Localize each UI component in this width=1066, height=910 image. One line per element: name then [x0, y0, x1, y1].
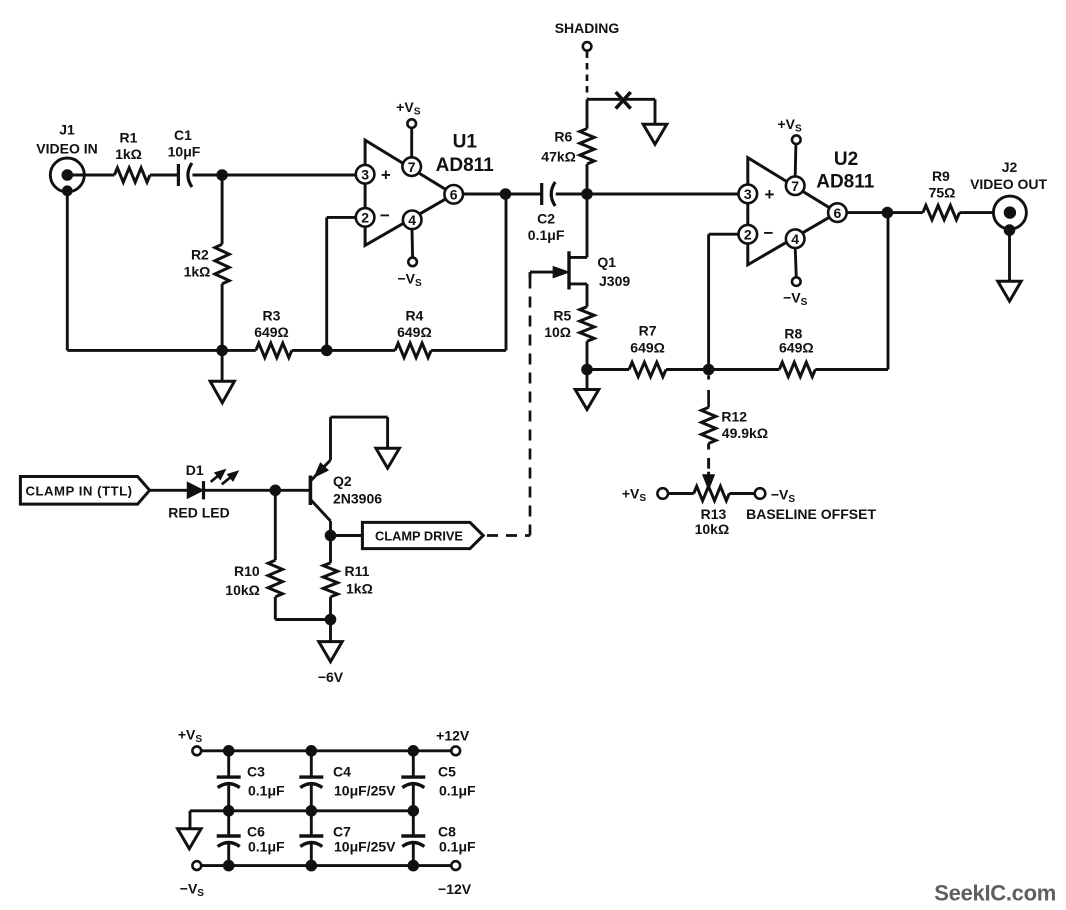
label R1 1k: [115, 130, 142, 163]
node R5/R7: [581, 364, 593, 376]
U2 pin 2: [739, 225, 758, 244]
label C7 10uF: [333, 823, 396, 854]
svg-text:1kΩ: 1kΩ: [115, 146, 142, 162]
U2 plus sign: [765, 185, 775, 204]
label U1 -Vs: [397, 270, 422, 289]
svg-text:D1: D1: [186, 462, 204, 478]
label C6 0.1uF: [247, 823, 285, 854]
ground at shading: [643, 124, 667, 144]
label R9 75: [929, 168, 956, 201]
flag CLAMP IN (TTL): [20, 477, 149, 505]
U2 -Vs terminal: [792, 248, 801, 286]
svg-text:C4: C4: [333, 764, 351, 780]
node top C5: [408, 745, 420, 757]
resistor R2: [215, 175, 229, 350]
svg-text:RED LED: RED LED: [168, 505, 229, 521]
svg-text:2: 2: [744, 226, 752, 242]
capacitor C8: [401, 811, 425, 866]
label R2 1k: [184, 247, 211, 280]
label +Vs at R13: [622, 486, 647, 505]
U1 plus sign: [381, 165, 391, 184]
svg-text:Q2: Q2: [333, 473, 352, 489]
label R4 649: [397, 308, 432, 341]
node U1 output: [500, 188, 512, 200]
label U1 +Vs: [396, 99, 421, 118]
node at C1/R2: [216, 169, 228, 181]
U2 pin 6: [828, 203, 847, 222]
capacitor C6: [217, 811, 241, 866]
transistor Q2 2N3906: [310, 460, 330, 521]
wire R4 up to output node: [431, 194, 506, 350]
label U2: [816, 149, 875, 193]
svg-text:49.9kΩ: 49.9kΩ: [722, 425, 768, 441]
flag CLAMP DRIVE: [362, 522, 483, 548]
U1 pin 6: [444, 185, 463, 204]
svg-text:C8: C8: [438, 823, 456, 839]
label C4 10uF: [333, 764, 396, 799]
label R5 10ohm: [544, 307, 571, 340]
svg-text:U1: U1: [453, 132, 478, 153]
potentiometer R13: [657, 486, 765, 500]
bottom rail wire: [201, 864, 451, 867]
svg-text:CLAMP DRIVE: CLAMP DRIVE: [375, 528, 463, 543]
resistor R1: [114, 168, 150, 182]
node bot C7: [306, 860, 318, 872]
wire D1 to Q2 base: [204, 489, 311, 492]
label C3 0.1uF: [247, 764, 285, 799]
svg-text:2: 2: [361, 210, 369, 226]
svg-text:R9: R9: [932, 168, 950, 184]
wire Q2 collector down: [329, 521, 332, 536]
U2 pin 4: [786, 229, 805, 248]
svg-text:0.1μF: 0.1μF: [528, 227, 565, 243]
svg-text:R12: R12: [721, 408, 747, 424]
resistor R4: [395, 343, 431, 357]
label BASELINE OFFSET: [746, 506, 876, 522]
capacitor C3: [217, 751, 241, 811]
svg-text:J1: J1: [59, 122, 75, 138]
svg-text:649Ω: 649Ω: [254, 324, 289, 340]
-12V rail terminal: [451, 861, 460, 870]
node mid (R6/Q1): [581, 188, 593, 200]
svg-text:10μF/25V: 10μF/25V: [334, 838, 396, 854]
svg-text:J309: J309: [599, 273, 630, 289]
label C5 0.1uF: [438, 764, 476, 799]
svg-text:0.1μF: 0.1μF: [439, 838, 476, 854]
svg-text:75Ω: 75Ω: [929, 185, 956, 201]
wire R7 to node: [666, 368, 709, 371]
resistor R12 (dashed leads): [701, 375, 715, 468]
U1 +Vs terminal: [407, 119, 416, 157]
node mid C4: [306, 805, 318, 817]
transistor Q1 J309 (JFET): [530, 251, 587, 289]
wire R9 to J2: [960, 211, 1010, 214]
svg-text:4: 4: [408, 212, 416, 228]
ground at J2: [998, 281, 1021, 301]
U1 pin 4: [403, 211, 422, 230]
svg-text:4: 4: [791, 231, 799, 247]
label -Vs rail: [180, 880, 205, 899]
wire J2 to ground: [1008, 230, 1011, 281]
capacitor C2: [542, 182, 556, 206]
wire node to CLAMP DRIVE flag: [331, 534, 363, 537]
svg-text:R4: R4: [405, 308, 423, 324]
svg-text:7: 7: [408, 159, 416, 175]
svg-text:649Ω: 649Ω: [779, 340, 814, 356]
node mid C3: [223, 805, 235, 817]
node R7/R8/R12: [703, 364, 715, 376]
label R3 649: [254, 308, 289, 341]
capacitor C1: [178, 163, 192, 187]
capacitor C4: [299, 751, 323, 811]
label RED LED: [168, 505, 229, 521]
node R3/R4: [321, 345, 333, 357]
node R10/R11 bottom: [325, 614, 337, 626]
wire Q2 emitter to ground: [331, 417, 388, 460]
connector J2 (VIDEO OUT BNC): [993, 196, 1026, 236]
label R7 649: [630, 323, 665, 356]
node top C4: [306, 745, 318, 757]
svg-text:10μF: 10μF: [168, 144, 201, 160]
+Vs rail terminal: [192, 746, 201, 755]
wire shading horiz with corner: [587, 99, 655, 124]
svg-text:+: +: [381, 165, 391, 184]
svg-text:649Ω: 649Ω: [397, 324, 432, 340]
label J2: [970, 159, 1047, 192]
label R6 47k: [541, 129, 576, 165]
wire flag to D1: [150, 489, 188, 492]
label R8 649: [779, 325, 814, 355]
svg-text:10kΩ: 10kΩ: [695, 521, 730, 537]
node top C3: [223, 745, 235, 757]
+12V rail terminal: [451, 746, 460, 755]
U2 minus sign: [764, 223, 774, 242]
svg-text:+12V: +12V: [436, 727, 470, 743]
svg-text:SeekIC.com: SeekIC.com: [934, 881, 1056, 906]
wire U1 pin6 to C2: [463, 193, 542, 196]
svg-text:10kΩ: 10kΩ: [225, 582, 260, 598]
svg-text:6: 6: [834, 205, 842, 221]
label SHADING: [555, 20, 620, 36]
node U2 output: [882, 207, 894, 219]
svg-text:R1: R1: [120, 130, 138, 146]
ground at Q2 emitter: [376, 448, 400, 468]
svg-text:C1: C1: [174, 127, 192, 143]
svg-text:47kΩ: 47kΩ: [541, 148, 576, 164]
svg-text:SHADING: SHADING: [555, 20, 620, 36]
label -Vs at R13: [771, 487, 796, 506]
svg-text:649Ω: 649Ω: [630, 340, 665, 356]
svg-text:6: 6: [450, 187, 458, 203]
resistor R5: [580, 307, 594, 370]
node bot C6: [223, 860, 235, 872]
SHADING terminal: [583, 42, 592, 51]
svg-text:−12V: −12V: [438, 881, 472, 897]
svg-text:VIDEO OUT: VIDEO OUT: [970, 176, 1047, 192]
label C1 10uF: [168, 127, 201, 160]
wire mid node to U2 pin3: [587, 193, 739, 196]
label C2 0.1uF: [528, 210, 565, 243]
svg-text:R5: R5: [553, 307, 571, 323]
svg-text:AD811: AD811: [436, 155, 495, 176]
label C8 0.1uF: [438, 823, 476, 854]
resistor R10: [268, 490, 282, 619]
svg-text:R2: R2: [191, 247, 209, 263]
svg-text:1kΩ: 1kΩ: [184, 264, 211, 280]
dashed wire CLAMP DRIVE to Q1 gate: [487, 272, 532, 535]
dashed wire SHADING: [586, 52, 589, 98]
svg-text:−: −: [764, 223, 774, 242]
svg-text:CLAMP IN (TTL): CLAMP IN (TTL): [25, 483, 132, 498]
node LED/R10: [270, 485, 282, 497]
U2 +Vs terminal: [792, 135, 801, 176]
svg-text:C3: C3: [247, 764, 265, 780]
node collector/R11: [325, 530, 337, 542]
svg-text:C5: C5: [438, 764, 456, 780]
resistor R9: [923, 205, 960, 219]
resistor R8: [779, 362, 815, 376]
resistor R7: [629, 362, 666, 376]
svg-text:C2: C2: [537, 210, 555, 226]
wire U1 pin2 down: [327, 217, 356, 350]
svg-text:0.1μF: 0.1μF: [248, 838, 285, 854]
svg-text:U2: U2: [834, 149, 858, 170]
svg-text:+: +: [765, 185, 775, 204]
label U1: [436, 132, 495, 177]
svg-text:1kΩ: 1kΩ: [346, 581, 373, 597]
connector J1 (VIDEO IN BNC): [50, 158, 84, 196]
svg-text:R11: R11: [345, 563, 370, 579]
wire R1 to C1: [150, 174, 178, 177]
label J1: [36, 122, 97, 157]
label -12V: [438, 881, 472, 897]
label R11 1k: [345, 563, 373, 596]
node bot C8: [408, 860, 420, 872]
U1 pin 7: [402, 157, 421, 176]
wire R3 to node: [292, 349, 395, 352]
diode D1 (LED): [188, 470, 238, 500]
label D1: [186, 462, 204, 478]
wire node to R8: [709, 368, 780, 371]
-Vs rail terminal: [192, 861, 201, 870]
resistor R6: [580, 99, 594, 194]
svg-text:−6V: −6V: [318, 669, 344, 685]
label +Vs rail: [178, 727, 203, 746]
watermark SeekIC.com: [934, 881, 1056, 906]
wire R10 bottom: [275, 618, 330, 621]
svg-text:VIDEO IN: VIDEO IN: [36, 141, 97, 157]
svg-text:BASELINE OFFSET: BASELINE OFFSET: [746, 506, 876, 522]
svg-text:J2: J2: [1002, 159, 1018, 175]
label U2 -Vs: [783, 290, 808, 309]
svg-text:3: 3: [744, 186, 752, 202]
label R12 49.9k: [721, 408, 768, 441]
node mid C5: [408, 805, 420, 817]
label R10 10k: [225, 563, 260, 598]
label Q1 J309: [597, 254, 630, 289]
svg-text:10μF/25V: 10μF/25V: [334, 782, 396, 798]
svg-text:10Ω: 10Ω: [544, 324, 571, 340]
wire Q1 source to R5: [586, 284, 589, 307]
svg-text:R7: R7: [639, 323, 657, 339]
U2 pin 3: [739, 185, 758, 204]
label R13 10k: [695, 506, 730, 537]
svg-text:R10: R10: [234, 563, 260, 579]
mid rail ground: [178, 811, 202, 849]
U2 pin 7: [786, 176, 805, 195]
U1 pin 3: [356, 165, 375, 184]
capacitor C5: [401, 751, 425, 811]
U1 minus sign: [380, 206, 390, 225]
svg-text:R6: R6: [554, 129, 572, 145]
svg-text:C6: C6: [247, 823, 265, 839]
capacitor C7: [299, 811, 323, 866]
op-amp U2 triangle: [748, 158, 838, 265]
ground at -6V: [319, 620, 342, 662]
wire U2 pin2 to node: [709, 234, 739, 369]
op-amp U1 triangle: [365, 140, 454, 245]
svg-text:Q1: Q1: [597, 254, 616, 270]
label +12V: [436, 727, 470, 743]
wire C2 to mid node: [556, 193, 587, 196]
wire R5 node to R7: [587, 368, 629, 371]
svg-text:R13: R13: [701, 506, 727, 522]
label Q2 2N3906: [333, 473, 382, 507]
ground below R5: [575, 370, 599, 410]
X mark (cut jumper): [616, 92, 631, 109]
wiper arrow into R13: [703, 472, 714, 489]
svg-text:3: 3: [361, 166, 369, 182]
node R2/R3 bottom: [216, 345, 228, 357]
wire C1 to U1 pin3: [193, 174, 356, 177]
wire R8 up to output node: [815, 213, 888, 370]
mid rail wire: [190, 809, 413, 812]
svg-text:7: 7: [791, 178, 799, 194]
wire mid node to Q1 drain: [586, 194, 589, 257]
label -6V: [318, 669, 344, 685]
svg-text:2N3906: 2N3906: [333, 491, 382, 507]
svg-text:C7: C7: [333, 823, 351, 839]
svg-text:−: −: [380, 206, 390, 225]
label U2 +Vs: [777, 116, 802, 135]
wire J1 shield down: [67, 191, 256, 351]
+Vs top rail wire: [201, 749, 451, 752]
svg-text:R3: R3: [263, 308, 281, 324]
U1 pin 2: [356, 208, 375, 227]
U1 -Vs terminal: [408, 229, 417, 266]
resistor R11: [323, 536, 337, 620]
resistor R3: [256, 343, 292, 357]
ground main: [210, 350, 234, 402]
wire J1 to R1: [84, 174, 114, 177]
wire U2 pin6 to R9: [847, 211, 923, 214]
svg-text:0.1μF: 0.1μF: [439, 782, 476, 798]
svg-text:0.1μF: 0.1μF: [248, 782, 285, 798]
svg-text:AD811: AD811: [816, 172, 875, 193]
